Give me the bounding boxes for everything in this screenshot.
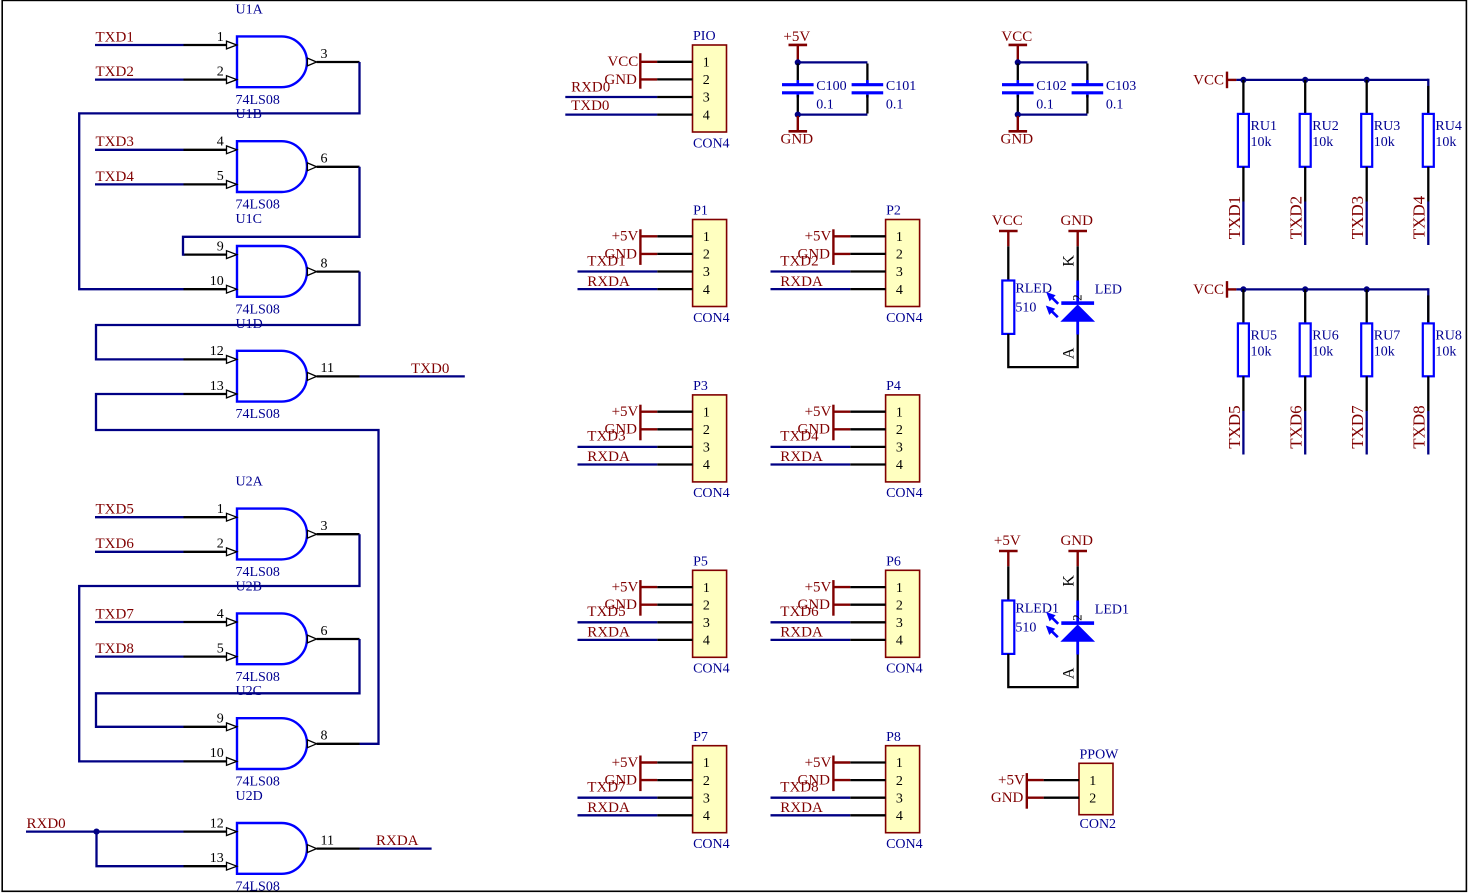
- wire net RXDA to P7 pin 4: [578, 814, 658, 816]
- svg-text:74LS08: 74LS08: [236, 93, 280, 108]
- svg-text:74LS08: 74LS08: [236, 670, 280, 685]
- wire net TXD8 to P8 pin 3: [771, 797, 851, 799]
- capacitor C102 0.1: [1002, 64, 1067, 114]
- svg-text:TXD8: TXD8: [780, 780, 818, 796]
- svg-text:TXD6: TXD6: [1287, 405, 1306, 448]
- svg-text:LED1: LED1: [1095, 603, 1129, 618]
- svg-text:RXDA: RXDA: [587, 274, 630, 290]
- junction node top: [795, 59, 801, 65]
- svg-text:2: 2: [896, 598, 903, 613]
- wire net TXD7: [95, 621, 184, 623]
- svg-text:+5V: +5V: [783, 29, 810, 45]
- svg-text:12: 12: [210, 344, 224, 359]
- wire net TXD4 below RU4: [1427, 167, 1429, 202]
- svg-text:VCC: VCC: [1193, 282, 1224, 298]
- svg-text:TXD7: TXD7: [96, 606, 135, 622]
- AND gate U1C (74LS08): [184, 212, 360, 317]
- svg-text:2: 2: [896, 248, 903, 263]
- pin numbers 9, 10, 8: [210, 712, 328, 762]
- svg-text:RXDA: RXDA: [780, 449, 823, 465]
- resistor RU5 10k: [1238, 289, 1277, 376]
- svg-text:3: 3: [703, 441, 710, 456]
- svg-text:2: 2: [1069, 614, 1084, 621]
- connector P5 (CON4): [657, 555, 729, 677]
- wire VCC bus: [1236, 288, 1428, 290]
- svg-text:TXD5: TXD5: [587, 604, 625, 620]
- svg-text:RU4: RU4: [1435, 119, 1461, 134]
- svg-text:10k: 10k: [1374, 345, 1395, 360]
- svg-text:4: 4: [217, 607, 224, 622]
- junction node at RU2: [1302, 77, 1308, 83]
- svg-text:P3: P3: [693, 379, 708, 394]
- svg-text:5: 5: [217, 169, 224, 184]
- resistor RU2 10k: [1300, 80, 1339, 167]
- svg-text:GND: GND: [1001, 132, 1034, 148]
- junction node at RU5: [1240, 286, 1246, 292]
- svg-text:VCC: VCC: [1001, 29, 1032, 45]
- svg-text:4: 4: [703, 283, 710, 298]
- svg-text:TXD8: TXD8: [96, 641, 134, 657]
- svg-text:74LS08: 74LS08: [236, 198, 280, 213]
- svg-text:2: 2: [1069, 294, 1084, 301]
- svg-text:5: 5: [217, 641, 224, 656]
- svg-text:RXD0: RXD0: [27, 816, 66, 832]
- AND gate U1B (74LS08): [184, 107, 360, 212]
- wire net TXD5: [95, 516, 184, 518]
- wire net RXDA to P2 pin 4: [771, 288, 851, 290]
- svg-text:P4: P4: [886, 379, 901, 394]
- svg-text:RU6: RU6: [1312, 329, 1338, 344]
- svg-text:TXD0: TXD0: [571, 98, 609, 114]
- svg-text:CON4: CON4: [693, 136, 730, 151]
- AND gate U2C (74LS08): [184, 684, 360, 789]
- power port VCC (top of C102/C103): [1001, 29, 1032, 61]
- junction node bottom: [795, 112, 801, 118]
- svg-text:U1A: U1A: [236, 2, 264, 17]
- wire net TXD0 from U1D pin 11: [360, 375, 465, 377]
- svg-text:2: 2: [217, 537, 224, 552]
- svg-text:+5V: +5V: [994, 533, 1021, 549]
- resistor RU3 10k: [1361, 80, 1400, 167]
- svg-text:74LS08: 74LS08: [236, 407, 280, 422]
- wire U1A pin 3 to U1C pin 10: [79, 62, 359, 289]
- pin numbers 12, 13, 11: [210, 816, 334, 866]
- pin numbers 1, 2, 3: [217, 502, 328, 552]
- resistor RU8 10k: [1423, 288, 1462, 376]
- wire net RXDA to P3 pin 4: [578, 463, 658, 465]
- svg-text:4: 4: [703, 634, 710, 649]
- svg-text:TXD8: TXD8: [1410, 405, 1429, 448]
- svg-text:RXDA: RXDA: [587, 800, 630, 816]
- svg-text:11: 11: [321, 833, 334, 848]
- junction node at RU6: [1302, 286, 1308, 292]
- svg-text:74LS08: 74LS08: [236, 775, 280, 790]
- svg-text:C102: C102: [1036, 79, 1066, 94]
- power port +5V / GND at P8: [798, 755, 851, 791]
- svg-text:10k: 10k: [1251, 345, 1272, 360]
- svg-text:TXD7: TXD7: [1348, 405, 1367, 449]
- wire net RXD0 to U2D pins 12 and 13: [26, 830, 184, 832]
- power port +5V / GND at P4: [798, 404, 851, 440]
- svg-text:4: 4: [703, 108, 710, 123]
- svg-text:RU7: RU7: [1374, 329, 1400, 344]
- svg-text:C100: C100: [816, 79, 846, 94]
- pin numbers 4, 5, 6: [217, 135, 328, 185]
- svg-text:74LS08: 74LS08: [236, 302, 280, 317]
- svg-text:TXD1: TXD1: [1225, 196, 1244, 239]
- svg-text:TXD0: TXD0: [411, 361, 449, 377]
- wire net RXDA to P4 pin 4: [771, 463, 851, 465]
- junction node RXD0: [93, 829, 99, 835]
- svg-text:K: K: [1060, 575, 1077, 587]
- wire net TXD6: [95, 551, 184, 553]
- svg-text:1: 1: [703, 756, 710, 771]
- wire U2C pin 8 to U1D pin 13: [96, 394, 379, 744]
- power port GND (above LED): [1060, 213, 1093, 247]
- wire net TXD1 below RU1: [1242, 167, 1244, 202]
- wire top rail: [798, 61, 868, 63]
- svg-text:RXD0: RXD0: [571, 79, 610, 95]
- AND gate U1D (74LS08): [184, 317, 360, 422]
- LED emission arrow: [1047, 613, 1059, 624]
- AND gate U2B (74LS08): [184, 579, 360, 684]
- wire net TXD2 below RU2: [1304, 167, 1306, 202]
- junction node at RU3: [1364, 77, 1370, 83]
- svg-text:RXDA: RXDA: [587, 625, 630, 641]
- connector P4 (CON4): [850, 379, 922, 501]
- LED LED1: [1061, 601, 1094, 655]
- LED LED: [1061, 281, 1094, 335]
- svg-text:RXDA: RXDA: [780, 625, 823, 641]
- svg-text:2: 2: [703, 248, 710, 263]
- power port VCC (left of RU1): [1193, 72, 1236, 89]
- power port +5V / GND at PPOW: [991, 773, 1044, 809]
- svg-text:C103: C103: [1106, 79, 1136, 94]
- wire net TXD7 below RU7: [1366, 376, 1368, 411]
- svg-text:C101: C101: [886, 79, 916, 94]
- svg-text:CON4: CON4: [886, 311, 923, 326]
- svg-text:1: 1: [896, 405, 903, 420]
- wire net TXD8 below RU8: [1427, 376, 1429, 411]
- svg-text:RU3: RU3: [1374, 119, 1400, 134]
- junction node top: [1015, 59, 1021, 65]
- svg-text:CON4: CON4: [693, 662, 730, 677]
- svg-text:P6: P6: [886, 555, 901, 570]
- svg-text:RLED: RLED: [1015, 282, 1052, 297]
- svg-text:TXD3: TXD3: [587, 429, 625, 445]
- svg-text:TXD5: TXD5: [96, 502, 134, 518]
- svg-text:U2D: U2D: [236, 789, 263, 804]
- resistor RLED1 510: [1002, 601, 1059, 654]
- svg-text:4: 4: [703, 809, 710, 824]
- connector P3 (CON4): [657, 379, 729, 501]
- svg-text:2: 2: [217, 64, 224, 79]
- svg-text:TXD3: TXD3: [1348, 196, 1367, 239]
- wire net TXD2 to P2 pin 3: [771, 270, 851, 272]
- junction node at RU7: [1364, 286, 1370, 292]
- power port +5V / GND at P6: [798, 580, 851, 616]
- svg-text:1: 1: [896, 756, 903, 771]
- connector P1 (CON4): [657, 204, 729, 326]
- svg-text:U2A: U2A: [236, 475, 264, 490]
- wire net RXD0 to PIO pin 3: [565, 96, 657, 98]
- svg-text:PIO: PIO: [693, 29, 716, 44]
- wire U2A pin 3 to U2C pin 10: [79, 534, 359, 761]
- wire net RXDA to P5 pin 4: [578, 639, 658, 641]
- wire net TXD7 to P7 pin 3: [578, 797, 658, 799]
- wire net TXD0 to PIO pin 4: [565, 113, 657, 115]
- svg-text:VCC: VCC: [607, 54, 638, 70]
- svg-text:+5V: +5V: [612, 755, 639, 771]
- LED emission arrow: [1046, 626, 1058, 637]
- svg-text:RXDA: RXDA: [376, 833, 419, 849]
- svg-text:U1B: U1B: [236, 107, 262, 122]
- power port VCC (left of RU5): [1193, 281, 1236, 298]
- svg-text:TXD2: TXD2: [1287, 196, 1306, 239]
- wire U2B pin 6 to U2C pin 9: [96, 639, 360, 727]
- svg-text:TXD2: TXD2: [780, 253, 818, 269]
- AND gate U1A (74LS08): [184, 2, 360, 107]
- svg-text:510: 510: [1015, 301, 1036, 316]
- svg-text:U2C: U2C: [236, 684, 262, 699]
- svg-text:TXD3: TXD3: [96, 134, 134, 150]
- svg-text:10k: 10k: [1435, 135, 1456, 150]
- svg-text:1: 1: [217, 502, 224, 517]
- svg-text:1: 1: [703, 56, 710, 71]
- svg-text:RU2: RU2: [1312, 119, 1338, 134]
- wire net TXD1: [95, 44, 184, 46]
- svg-text:P2: P2: [886, 204, 901, 219]
- svg-text:3: 3: [321, 519, 328, 534]
- wire net TXD4 to P4 pin 3: [771, 446, 851, 448]
- svg-text:+5V: +5V: [805, 755, 832, 771]
- svg-text:13: 13: [210, 851, 224, 866]
- svg-text:6: 6: [321, 152, 328, 167]
- svg-text:+5V: +5V: [612, 404, 639, 420]
- svg-text:RXDA: RXDA: [780, 274, 823, 290]
- svg-text:+5V: +5V: [805, 404, 832, 420]
- svg-text:U1C: U1C: [236, 212, 262, 227]
- svg-text:P1: P1: [693, 204, 708, 219]
- svg-text:4: 4: [217, 135, 224, 150]
- svg-text:3: 3: [703, 265, 710, 280]
- svg-text:+5V: +5V: [612, 580, 639, 596]
- svg-text:1: 1: [1089, 774, 1096, 789]
- svg-text:TXD2: TXD2: [96, 64, 134, 80]
- wire net TXD5 below RU5: [1242, 376, 1244, 411]
- wire net TXD4: [95, 183, 184, 185]
- svg-text:1: 1: [703, 230, 710, 245]
- svg-text:TXD4: TXD4: [96, 169, 135, 185]
- svg-text:+5V: +5V: [998, 773, 1025, 789]
- wire net TXD8: [95, 655, 184, 657]
- pin numbers 1, 2, 3: [217, 30, 328, 80]
- svg-text:PPOW: PPOW: [1080, 748, 1120, 763]
- svg-text:RXDA: RXDA: [780, 800, 823, 816]
- svg-text:4: 4: [896, 634, 903, 649]
- pin numbers 9, 10, 8: [210, 239, 328, 289]
- power port +5V (above RLED1): [994, 533, 1021, 567]
- svg-text:TXD6: TXD6: [96, 536, 135, 552]
- svg-text:0.1: 0.1: [886, 98, 904, 113]
- connector P6 (CON4): [850, 555, 922, 677]
- svg-text:3: 3: [896, 265, 903, 280]
- AND gate U2A (74LS08): [184, 475, 360, 580]
- svg-text:A: A: [1060, 667, 1077, 679]
- wire RLED to LED anode: [1008, 334, 1077, 367]
- wire VCC bus: [1236, 79, 1428, 81]
- svg-text:GND: GND: [1060, 533, 1093, 549]
- wire net TXD5 to P5 pin 3: [578, 621, 658, 623]
- resistor RU1 10k: [1238, 80, 1277, 167]
- resistor RU7 10k: [1361, 289, 1400, 376]
- wire net RXDA to P6 pin 4: [771, 639, 851, 641]
- svg-text:10k: 10k: [1312, 345, 1333, 360]
- capacitor C100 0.1: [782, 64, 847, 114]
- svg-text:10k: 10k: [1435, 345, 1456, 360]
- svg-text:3: 3: [703, 91, 710, 106]
- capacitor C103 0.1: [1072, 64, 1137, 114]
- pin labels K / A / 2 of LED1: [1060, 575, 1084, 680]
- svg-text:3: 3: [896, 791, 903, 806]
- svg-text:1: 1: [703, 405, 710, 420]
- svg-text:RU5: RU5: [1251, 329, 1277, 344]
- svg-text:0.1: 0.1: [1036, 98, 1054, 113]
- svg-text:10: 10: [210, 746, 224, 761]
- svg-text:RXDA: RXDA: [587, 449, 630, 465]
- wire net RXDA from U2D pin 11: [360, 847, 432, 849]
- svg-text:11: 11: [321, 361, 334, 376]
- svg-text:TXD7: TXD7: [587, 780, 626, 796]
- connector PIO (CON4): [657, 29, 729, 151]
- svg-text:GND: GND: [1060, 213, 1093, 229]
- wire net TXD3 below RU3: [1366, 167, 1368, 202]
- svg-text:P7: P7: [693, 730, 708, 745]
- svg-text:CON4: CON4: [693, 837, 730, 852]
- wire +5V to RLED1: [1007, 566, 1009, 600]
- power port VCC (above RLED): [992, 213, 1023, 247]
- power port +5V / GND at P1: [605, 229, 658, 265]
- svg-text:K: K: [1060, 255, 1077, 267]
- svg-text:RU8: RU8: [1435, 329, 1461, 344]
- svg-text:CON4: CON4: [693, 311, 730, 326]
- svg-text:CON4: CON4: [886, 837, 923, 852]
- svg-text:TXD1: TXD1: [587, 253, 625, 269]
- wire net TXD2: [95, 78, 184, 80]
- svg-text:2: 2: [896, 774, 903, 789]
- power port +5V / GND at P5: [605, 580, 658, 616]
- svg-text:CON4: CON4: [693, 486, 730, 501]
- svg-text:RU1: RU1: [1251, 119, 1277, 134]
- wire net RXDA to P1 pin 4: [578, 288, 658, 290]
- svg-text:+5V: +5V: [805, 229, 832, 245]
- svg-text:VCC: VCC: [1193, 73, 1224, 89]
- svg-text:8: 8: [321, 256, 328, 271]
- svg-text:8: 8: [321, 729, 328, 744]
- capacitor C101 0.1: [852, 64, 917, 114]
- junction node bottom: [1015, 112, 1021, 118]
- wire net TXD1 to P1 pin 3: [578, 270, 658, 272]
- svg-text:4: 4: [896, 458, 903, 473]
- svg-text:TXD1: TXD1: [96, 29, 134, 45]
- svg-text:CON4: CON4: [886, 486, 923, 501]
- power port +5V / GND at P2: [798, 229, 851, 265]
- svg-text:CON4: CON4: [886, 662, 923, 677]
- svg-text:2: 2: [703, 598, 710, 613]
- svg-text:0.1: 0.1: [1106, 98, 1124, 113]
- svg-text:3: 3: [896, 616, 903, 631]
- svg-text:TXD5: TXD5: [1225, 405, 1244, 448]
- svg-text:3: 3: [703, 791, 710, 806]
- resistor RU6 10k: [1300, 289, 1339, 376]
- svg-text:+5V: +5V: [805, 580, 832, 596]
- LED emission arrow: [1046, 306, 1058, 317]
- pin numbers 12, 13, 11: [210, 344, 334, 394]
- wire VCC to RLED: [1007, 246, 1009, 280]
- svg-text:1: 1: [217, 30, 224, 45]
- svg-text:74LS08: 74LS08: [236, 879, 280, 894]
- svg-text:2: 2: [703, 423, 710, 438]
- svg-text:1: 1: [703, 581, 710, 596]
- connector P8 (CON4): [850, 730, 922, 852]
- svg-text:4: 4: [703, 458, 710, 473]
- wire net TXD6 to P6 pin 3: [771, 621, 851, 623]
- power port GND (bottom of C100/C101): [781, 116, 814, 148]
- svg-text:4: 4: [896, 283, 903, 298]
- svg-text:P5: P5: [693, 555, 708, 570]
- svg-text:6: 6: [321, 624, 328, 639]
- power port GND (above LED1): [1060, 533, 1093, 567]
- pin numbers 4, 5, 6: [217, 607, 328, 657]
- connector P7 (CON4): [657, 730, 729, 852]
- wire U1B pin 6 to U1C pin 9: [183, 167, 360, 255]
- svg-text:CON2: CON2: [1080, 817, 1117, 832]
- wire bottom rail: [1018, 113, 1088, 115]
- power port +5V (top of C100/C101): [783, 29, 810, 61]
- wire net RXDA to P8 pin 4: [771, 814, 851, 816]
- wire net TXD6 below RU6: [1304, 376, 1306, 411]
- power port GND (bottom of C102/C103): [1001, 116, 1034, 148]
- svg-text:A: A: [1060, 347, 1077, 359]
- svg-text:10k: 10k: [1251, 135, 1272, 150]
- svg-text:3: 3: [703, 616, 710, 631]
- wire top rail: [1018, 61, 1088, 63]
- svg-text:GND: GND: [781, 132, 814, 148]
- wire bottom rail: [798, 113, 868, 115]
- svg-text:0.1: 0.1: [816, 98, 834, 113]
- svg-text:10k: 10k: [1374, 135, 1395, 150]
- svg-text:12: 12: [210, 816, 224, 831]
- pin labels K / A / 2 of LED: [1060, 255, 1084, 360]
- LED emission arrow: [1047, 293, 1059, 304]
- svg-text:9: 9: [217, 712, 224, 727]
- junction node at RU1: [1240, 77, 1246, 83]
- wire net TXD3: [95, 149, 184, 151]
- svg-text:13: 13: [210, 379, 224, 394]
- svg-text:LED: LED: [1095, 283, 1122, 298]
- wire net TXD3 to P3 pin 3: [578, 446, 658, 448]
- svg-text:2: 2: [896, 423, 903, 438]
- svg-text:VCC: VCC: [992, 213, 1023, 229]
- svg-text:510: 510: [1015, 621, 1036, 636]
- AND gate U2D (74LS08): [184, 789, 360, 894]
- svg-text:TXD4: TXD4: [1410, 195, 1429, 239]
- svg-text:2: 2: [703, 73, 710, 88]
- svg-text:2: 2: [703, 774, 710, 789]
- wire GND to LED cathode: [1077, 246, 1079, 280]
- connector PPOW (CON2): [1044, 748, 1120, 833]
- power port +5V / GND at P3: [605, 404, 658, 440]
